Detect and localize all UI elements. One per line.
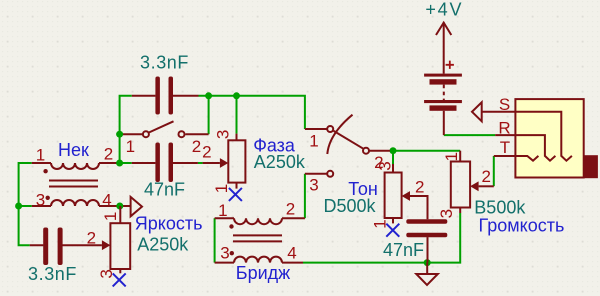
capacitor C4 47nF (tone): [383, 219, 447, 262]
wire: battery minus to jack R: [444, 134, 495, 136]
wire: volume wiper to jack T: [493, 156, 495, 186]
no-connect X at phase pin1: [229, 188, 242, 201]
wire: stub from node to C2: [120, 162, 132, 164]
switch SW1 (top switch): [120, 121, 209, 156]
battery BT1: [424, 0, 463, 135]
svg-text:1: 1: [442, 152, 461, 161]
potentiometer RV3 tone D500k: [323, 161, 427, 228]
svg-text:4: 4: [287, 244, 296, 263]
svg-text:T: T: [500, 138, 510, 157]
svg-text:Яркость: Яркость: [135, 213, 203, 233]
svg-text:1: 1: [309, 132, 318, 151]
connector J1 output jack: [472, 95, 598, 178]
wire: top bus from C1 to SW2 pin1: [199, 96, 305, 129]
junction: neck pin2 node: [116, 160, 123, 167]
transformer T1 neck pickup: [32, 140, 120, 210]
wire: neck pin3 stub: [19, 205, 32, 207]
ground: [416, 263, 438, 285]
wire: C2 to phase pot wiper: [198, 162, 203, 164]
svg-text:4: 4: [102, 191, 111, 210]
svg-text:2: 2: [286, 200, 295, 219]
svg-text:1: 1: [36, 146, 45, 165]
capacitor C2 47nF (middle): [132, 143, 198, 200]
wire: branch from top bus down to SW1 pin2: [208, 96, 210, 134]
svg-text:Нек: Нек: [58, 140, 89, 160]
svg-text:1: 1: [218, 201, 227, 220]
svg-text:2: 2: [202, 143, 211, 162]
svg-text:3: 3: [309, 176, 318, 195]
svg-text:47nF: 47nF: [383, 240, 424, 260]
node A: junction triangle marker right of neck pin4: [120, 197, 142, 216]
wire: neck left vertical pin1-pin3-C3: [19, 163, 32, 245]
switch SW2 (phase switch): [305, 115, 390, 195]
svg-text:3: 3: [36, 191, 45, 210]
transformer T2 bridge pickup: [215, 200, 305, 284]
svg-text:3: 3: [376, 161, 395, 170]
svg-text:Громкость: Громкость: [479, 215, 565, 235]
svg-text:+4V: +4V: [425, 0, 463, 20]
svg-text:2: 2: [87, 229, 96, 248]
svg-text:2: 2: [415, 178, 424, 197]
wire: branch from top bus down to phase pot pin3: [236, 96, 238, 134]
wire: SW2 pin3 down to bridge pin2: [304, 174, 306, 218]
potentiometer RV1 brightness A250k: [87, 206, 203, 279]
wire: ground bus from bridge pin4 to volume pot pin3: [303, 213, 460, 263]
svg-text:1: 1: [212, 184, 231, 193]
junction: SW2 pin2 node: [390, 147, 397, 154]
svg-text:3: 3: [214, 130, 233, 139]
svg-text:Бридж: Бридж: [236, 263, 290, 283]
wire: node down to tone pot pin3: [392, 151, 394, 164]
svg-text:3: 3: [220, 244, 229, 263]
no-connect X at tone pin1: [386, 224, 399, 237]
junction: top bus / phase pot branch: [233, 92, 240, 99]
svg-text:2: 2: [192, 137, 201, 156]
potentiometer RV4 volume B500k: [437, 151, 564, 236]
wire: bridge pins1-3 link: [214, 218, 216, 262]
svg-text:A250k: A250k: [137, 235, 189, 255]
svg-text:R: R: [498, 118, 510, 137]
svg-text:A250k: A250k: [254, 152, 306, 172]
svg-text:S: S: [499, 95, 510, 114]
svg-text:2: 2: [104, 145, 113, 164]
svg-text:1: 1: [101, 212, 120, 221]
junction: ground bus node: [424, 259, 431, 266]
no-connect X at brightness pin3: [113, 273, 126, 286]
svg-text:47nF: 47nF: [144, 180, 185, 200]
svg-text:3.3nF: 3.3nF: [140, 53, 189, 73]
capacitor C3 3.3nF (bottom left): [28, 228, 102, 285]
svg-text:3.3nF: 3.3nF: [28, 264, 77, 284]
svg-text:D500k: D500k: [323, 196, 376, 216]
svg-text:2: 2: [481, 167, 490, 186]
potentiometer RV2 phase A250k: [202, 130, 306, 194]
svg-text:3: 3: [437, 209, 456, 218]
wire: C1 left lead corner down to neck net: [120, 96, 132, 163]
svg-text:1: 1: [126, 137, 135, 156]
capacitor C1 3.3nF (top): [132, 53, 199, 115]
junction: SW1 pin1 node: [116, 131, 123, 138]
junction: top bus / SW1 branch: [205, 92, 212, 99]
junction: neck pin4 node: [116, 203, 123, 210]
junction: neck pin3 left node: [15, 203, 22, 210]
wire: SW2 pin2 to volume pot pin1: [390, 150, 460, 152]
